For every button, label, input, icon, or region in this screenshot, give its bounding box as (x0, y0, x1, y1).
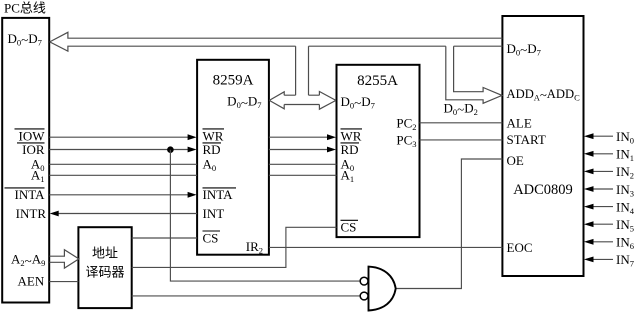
svg-text:D0~D7: D0~D7 (227, 94, 261, 111)
wire PC2 to ALE (420, 122, 503, 124)
wire decoder to gate input 2 (132, 295, 361, 297)
svg-text:EOC: EOC (507, 240, 533, 255)
wire AEN to decoder (49, 281, 78, 283)
input IN0 with arrow (584, 129, 634, 146)
label D0~D7 (ADC0809) (507, 41, 541, 58)
label WR (8255A, overline) (341, 128, 363, 143)
label IOR (PC bus, overline) (17, 142, 45, 157)
label AEN (PC bus) (18, 273, 45, 288)
label A1 (PC bus) (31, 168, 45, 185)
svg-text:CS: CS (203, 230, 219, 245)
svg-text:INT: INT (203, 206, 225, 221)
label CS (8259A, overline) (203, 230, 221, 245)
wire IOR branch down to gate input 1 (170, 150, 360, 281)
label D0~D7 (8259A) (227, 94, 261, 111)
label D0~D2 (444, 100, 478, 117)
address decoder box 地址译码器 (78, 227, 131, 308)
label RD (8255A, overline) (341, 142, 360, 157)
wire IOW to 8259A WR with arrow (49, 134, 196, 140)
label START (ADC0809) (507, 132, 546, 147)
input IN3 with arrow (584, 182, 634, 199)
label PC3 (8255A) (396, 132, 416, 149)
svg-text:8259A: 8259A (213, 73, 254, 89)
op 8255A box (337, 65, 420, 237)
label PC总线 (4, 1, 46, 16)
label D0~D7 (PC bus) (8, 31, 42, 48)
input IN2 with arrow (584, 164, 634, 181)
wire 8259A RD to 8255A RD with arrow (269, 147, 336, 153)
svg-text:D0~D7: D0~D7 (341, 94, 375, 111)
svg-text:地址: 地址 (92, 246, 118, 261)
svg-text:CS: CS (341, 220, 357, 235)
gate input bubble 1 (360, 277, 368, 285)
svg-text:ADDA~ADDC: ADDA~ADDC (507, 87, 581, 103)
input IN5 with arrow (584, 217, 634, 234)
svg-text:D0~D2: D0~D2 (444, 100, 478, 117)
label INTA (PC bus, overline) (5, 187, 46, 202)
label ADDA~ADDC (ADC0809) (507, 87, 581, 103)
PC bus box (2, 18, 49, 303)
bus vertical pipe from top bus down to chip double-arrow (296, 46, 309, 95)
wire gate output to ADC OE (396, 159, 502, 289)
svg-text:RD: RD (341, 142, 359, 157)
label EOC (ADC0809) (507, 240, 533, 255)
label A1 (8255A) (341, 168, 355, 185)
op ADC0809 box (502, 16, 583, 276)
svg-text:PC总线: PC总线 (4, 1, 46, 16)
wire A0 passthrough to 8255A (269, 163, 337, 165)
wire A1 to 8259A (49, 174, 197, 176)
svg-text:INTR: INTR (16, 206, 47, 221)
wire decoder to 8255A CS (jog up at x=286) (132, 227, 337, 267)
hollow double arrow 8259A D0~D7 to 8255A D0~D7 (269, 92, 336, 110)
svg-text:INTA: INTA (14, 187, 45, 202)
svg-text:START: START (507, 132, 546, 147)
label IR2 (8259A) (246, 239, 263, 256)
wire PC3 to START (420, 139, 503, 141)
op 8259A box (197, 60, 269, 255)
label INTR (PC bus) (16, 206, 47, 221)
wire IOR to 8259A RD with arrow (49, 147, 196, 153)
label A0 (PC bus) (31, 157, 45, 174)
svg-text:ADC0809: ADC0809 (513, 182, 573, 198)
label D0~D7 (8255A) (341, 94, 375, 111)
wire INT to INTR with arrow at PC bus (50, 211, 197, 217)
label WR (8259A, overline) (203, 128, 225, 143)
wire 8259A WR to 8255A WR with arrow (269, 134, 336, 140)
label A0 (8255A) (341, 157, 355, 174)
junction dot on IOR line (167, 146, 174, 153)
svg-text:RD: RD (203, 142, 221, 157)
svg-text:D0~D7: D0~D7 (507, 41, 541, 58)
svg-text:OE: OE (507, 153, 524, 168)
label A0 (8259A) (203, 157, 217, 174)
svg-text:译码器: 译码器 (85, 265, 124, 280)
label OE (ADC0809) (507, 153, 524, 168)
label RD (8259A, overline) (203, 142, 222, 157)
NOR gate (AND shape with input bubbles) (369, 267, 396, 311)
svg-text:8255A: 8255A (357, 73, 398, 89)
input IN6 with arrow (584, 235, 634, 252)
input IN4 with arrow (584, 199, 634, 216)
label INT (8259A) (203, 206, 225, 221)
wire A1 passthrough to 8255A (269, 174, 337, 176)
wire EOC to IR2 (269, 246, 503, 248)
wire A0 to 8259A (49, 163, 197, 165)
wire decoder to 8259A CS (132, 237, 197, 239)
label INTA (8259A, overline) (203, 187, 237, 202)
svg-text:D0~D7: D0~D7 (8, 31, 42, 48)
svg-text:INTA: INTA (203, 187, 234, 202)
label PC2 (8255A) (396, 115, 416, 131)
svg-text:A2~A9: A2~A9 (11, 252, 45, 269)
svg-text:AEN: AEN (18, 273, 45, 288)
svg-text:IOR: IOR (22, 142, 45, 157)
hollow bus branch D0~D2 to ADC ADDA~ADDC (446, 46, 502, 103)
wire INTA to 8259A with arrow (49, 192, 196, 198)
svg-text:ALE: ALE (507, 115, 532, 130)
label CS (8255A, overline) (341, 220, 359, 235)
label ALE (ADC0809) (507, 115, 532, 130)
hollow block arrow A2~A9 to decoder (50, 250, 79, 268)
input IN1 with arrow (584, 147, 634, 164)
gate input bubble 2 (360, 292, 368, 300)
input IN7 with arrow (584, 252, 634, 269)
label A2~A9 (PC bus) (11, 252, 45, 269)
data bus D0~D7: hollow arrow into PC bus, body to ADC0809 (50, 32, 503, 51)
label IOW (PC bus, overline) (15, 128, 46, 143)
